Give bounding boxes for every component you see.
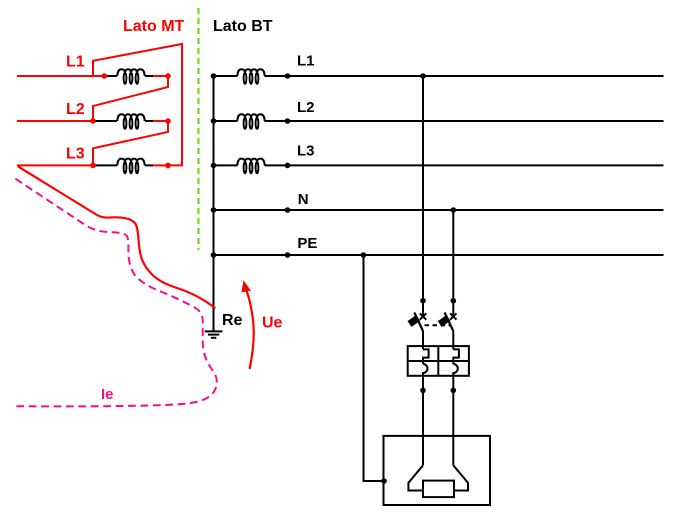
delta connection wire L2 winding end to L3: [93, 121, 168, 165]
svg-text:L2: L2: [66, 101, 85, 118]
wire N line: [214, 209, 664, 211]
node MT L3 left terminal: [90, 163, 96, 169]
wire black stub MT L3 left: [95, 164, 117, 166]
breaker pole 1 release flag: [408, 315, 421, 327]
wire BT L3 line right: [265, 164, 664, 166]
wire PE line: [214, 254, 664, 256]
release box outline: [408, 346, 469, 376]
svg-text:L1: L1: [66, 54, 85, 71]
svg-text:L3: L3: [66, 146, 85, 163]
wire black stub MT L1 left: [106, 75, 117, 77]
node N tap for load wire: [451, 207, 457, 213]
breaker pole 1 contact X: [420, 313, 426, 319]
node wire 1 below breaker: [420, 388, 426, 394]
delta connection wire from L3 winding end to L1 (top loop): [93, 44, 182, 165]
wire BT L1 line right: [265, 75, 664, 77]
winding BT L1: [237, 69, 264, 84]
earth current curve Ie (dashed magenta): [15, 179, 217, 407]
BT vertical bus wire: [213, 76, 215, 332]
load internal connection left: [408, 465, 423, 490]
svg-text:N: N: [298, 191, 309, 208]
node PE at enclosure: [381, 478, 387, 484]
MV/LV boundary dashed green line: [198, 8, 200, 250]
load element (resistor): [423, 481, 454, 498]
node above breaker pole 1: [420, 298, 426, 304]
svg-text:L2: L2: [297, 99, 315, 116]
release box horizontal divider: [408, 360, 469, 362]
breaker pole 2 contact X: [450, 313, 456, 319]
delta connection wire L1 winding end to L2: [93, 76, 168, 121]
wire PE to load enclosure: [364, 255, 384, 481]
winding MT L1: [117, 69, 144, 84]
node MT L1 left terminal: [102, 73, 108, 79]
arrow Ue (touch voltage): [246, 289, 254, 370]
wire red stub L1 right: [152, 75, 168, 77]
earth potential curve (solid red): [18, 166, 215, 308]
svg-text:Lato MT: Lato MT: [123, 18, 185, 35]
node MT L2 right terminal: [165, 118, 171, 124]
wire pole 1 to load: [422, 376, 424, 466]
wire MT L1 input: [17, 75, 107, 77]
wire MT L2 input: [17, 120, 95, 122]
thermal release pole 1: [423, 349, 429, 364]
node above breaker pole 2: [451, 298, 457, 304]
svg-text:L3: L3: [297, 143, 315, 160]
node bus-N junction: [211, 207, 217, 213]
load enclosure box: [384, 436, 491, 505]
svg-text:L1: L1: [297, 52, 315, 69]
node MT L3 right terminal: [165, 163, 171, 169]
svg-text:Lato BT: Lato BT: [213, 18, 273, 35]
wire neutral drop from N to breaker: [452, 210, 454, 316]
svg-text:PE: PE: [297, 235, 317, 252]
mechanical link (dashed): [425, 324, 451, 326]
svg-text:Re: Re: [222, 312, 243, 329]
node BT L1 winding output: [285, 73, 291, 79]
wire red stub L3 right: [152, 164, 168, 166]
node MT L1 right terminal: [165, 73, 171, 79]
wire pole 1 between blade and releases: [422, 331, 424, 349]
wire red stub L2 right: [152, 120, 168, 122]
wire MT L3 input: [17, 164, 95, 166]
wire BT L1 line left: [214, 75, 238, 77]
svg-text:Ie: Ie: [101, 386, 114, 403]
ground electrode symbol: [205, 331, 223, 337]
wire pole 2 between blade and releases: [452, 331, 454, 349]
node bus-PE junction: [211, 252, 217, 258]
node L1 tap for load wire: [420, 73, 426, 79]
wire BT L2 line left: [214, 120, 238, 122]
breaker pole 2 release flag: [438, 315, 451, 327]
node wire 2 below breaker: [451, 388, 457, 394]
node BT L2 winding output: [285, 118, 291, 124]
node PE tap: [361, 252, 367, 258]
winding BT L2: [237, 114, 264, 129]
wire black stub MT L2 right: [145, 120, 153, 122]
node MT L2 left terminal: [90, 118, 96, 124]
wire black stub MT L3 right: [145, 164, 153, 166]
node PE terminal: [285, 252, 291, 258]
magnetic release pole 1: [423, 364, 428, 376]
winding MT L3: [117, 159, 144, 174]
wire pole 2 to load: [452, 376, 454, 466]
wire BT L3 line left: [214, 164, 238, 166]
node bus-L3 junction: [211, 163, 217, 169]
magnetic release pole 2: [453, 364, 458, 376]
wire BT L2 line right: [265, 120, 664, 122]
svg-text:Ue: Ue: [262, 314, 283, 331]
wire black stub MT L1 right: [145, 75, 153, 77]
node N terminal: [285, 207, 291, 213]
load internal connection right: [453, 465, 468, 490]
node bus-L1 junction: [211, 73, 217, 79]
release box vertical divider: [437, 346, 439, 376]
node BT L3 winding output: [285, 163, 291, 169]
thermal release pole 2: [453, 349, 459, 364]
winding MT L2: [117, 114, 144, 129]
wire phase drop from L1 to breaker: [422, 76, 424, 316]
wire black stub MT L2 left: [95, 120, 117, 122]
node bus-L2 junction: [211, 118, 217, 124]
winding BT L3: [237, 159, 264, 174]
breaker pole 1 blade: [414, 313, 423, 332]
breaker pole 2 blade: [445, 313, 454, 332]
